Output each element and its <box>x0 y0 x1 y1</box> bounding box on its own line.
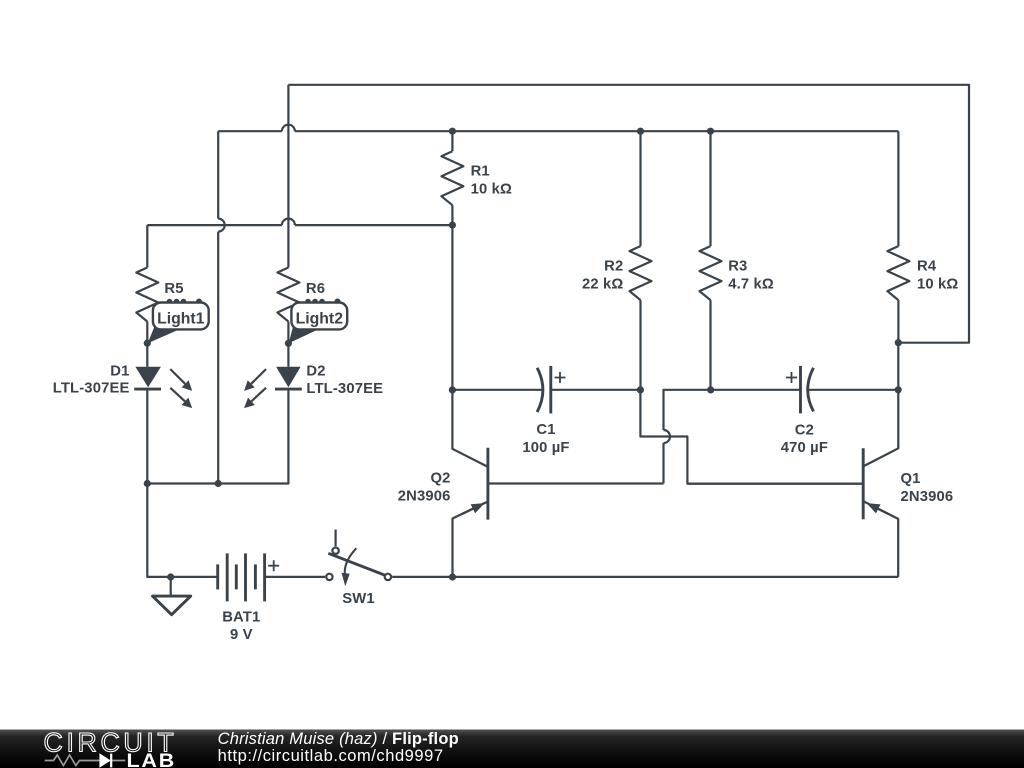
svg-text:R2: R2 <box>604 259 623 275</box>
svg-text:R1: R1 <box>471 163 490 179</box>
svg-text:Light2: Light2 <box>296 311 344 328</box>
svg-text:Q1: Q1 <box>901 471 921 487</box>
svg-text:D2: D2 <box>306 363 325 379</box>
svg-text:2N3906: 2N3906 <box>901 489 954 505</box>
svg-text:D1: D1 <box>110 363 129 379</box>
svg-text:9 V: 9 V <box>230 627 253 643</box>
svg-text:Christian Muise (haz) / Flip-f: Christian Muise (haz) / Flip-flop <box>218 730 459 748</box>
svg-text:LAB: LAB <box>127 751 177 768</box>
svg-text:C1: C1 <box>536 422 555 438</box>
svg-text:SW1: SW1 <box>342 591 375 607</box>
svg-text:http://circuitlab.com/chd9997: http://circuitlab.com/chd9997 <box>218 747 444 765</box>
svg-text:10 kΩ: 10 kΩ <box>917 277 958 293</box>
svg-text:BAT1: BAT1 <box>222 609 260 625</box>
svg-text:10 kΩ: 10 kΩ <box>471 182 512 198</box>
svg-text:22 kΩ: 22 kΩ <box>582 277 623 293</box>
svg-text:Light1: Light1 <box>157 311 205 328</box>
svg-text:100 µF: 100 µF <box>522 440 569 456</box>
svg-text:R5: R5 <box>164 281 183 297</box>
svg-text:LTL-307EE: LTL-307EE <box>306 381 383 397</box>
svg-text:LTL-307EE: LTL-307EE <box>53 381 130 397</box>
svg-text:4.7 kΩ: 4.7 kΩ <box>728 277 774 293</box>
svg-text:R6: R6 <box>306 281 325 297</box>
svg-text:R4: R4 <box>917 259 937 275</box>
svg-text:C2: C2 <box>795 423 814 439</box>
svg-text:470 µF: 470 µF <box>781 440 828 456</box>
svg-text:Q2: Q2 <box>430 471 450 487</box>
svg-text:R3: R3 <box>728 259 747 275</box>
svg-text:2N3906: 2N3906 <box>398 488 451 504</box>
